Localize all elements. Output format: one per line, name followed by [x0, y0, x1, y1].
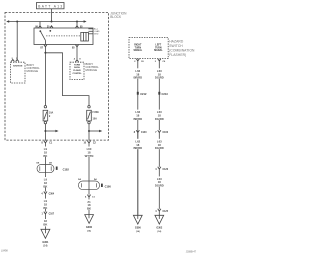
svg-text:L9: L9 [44, 199, 48, 203]
svg-text:IGNITION: IGNITION [13, 65, 23, 67]
svg-text:D4: D4 [94, 178, 98, 181]
svg-text:CONTRL: CONTRL [72, 73, 82, 75]
svg-text:D8: D8 [49, 163, 53, 165]
svg-text:10: 10 [84, 142, 87, 144]
svg-text:18: 18 [87, 151, 91, 155]
svg-text:4: 4 [85, 196, 87, 199]
svg-text:C1: C1 [92, 197, 96, 199]
svg-text:BK: BK [43, 222, 47, 226]
svg-text:J038B-47: J038B-47 [186, 251, 197, 254]
svg-text:G301: G301 [42, 241, 49, 244]
svg-text:18: 18 [87, 203, 91, 207]
svg-text:SIGNAL: SIGNAL [154, 49, 163, 52]
svg-text:18: 18 [158, 114, 162, 118]
svg-text:L63: L63 [157, 110, 162, 114]
svg-text:10A: 10A [93, 117, 98, 120]
svg-text:TURN: TURN [155, 47, 162, 49]
svg-text:C2: C2 [93, 142, 97, 144]
svg-text:BK: BK [87, 207, 91, 211]
svg-text:18: 18 [44, 181, 48, 185]
svg-text:L63: L63 [157, 139, 162, 143]
svg-text:C304: C304 [49, 193, 55, 196]
svg-text:18: 18 [136, 114, 140, 118]
svg-text:18: 18 [44, 203, 48, 207]
svg-text:BR/RD: BR/RD [133, 146, 142, 150]
svg-text:BK: BK [43, 154, 47, 158]
svg-text:SGNL: SGNL [74, 67, 81, 69]
svg-text:7: 7 [155, 132, 157, 134]
svg-text:MODULE: MODULE [86, 68, 98, 72]
svg-text:L9: L9 [44, 178, 48, 182]
svg-text:(14): (14) [157, 230, 161, 233]
svg-text:4: 4 [74, 58, 76, 61]
svg-text:Z1: Z1 [87, 200, 91, 204]
svg-text:18: 18 [44, 151, 48, 155]
svg-text:3: 3 [155, 61, 157, 63]
svg-text:(14): (14) [87, 229, 91, 232]
svg-text:G306: G306 [135, 227, 142, 230]
svg-text:C1: C1 [49, 142, 53, 144]
svg-text:10A: 10A [49, 111, 54, 114]
svg-text:DG/RD: DG/RD [155, 117, 164, 121]
svg-text:C107: C107 [49, 214, 55, 216]
svg-text:FLSHR: FLSHR [73, 70, 81, 72]
svg-text:G302: G302 [156, 227, 163, 230]
svg-text:4: 4 [155, 210, 157, 213]
svg-text:18: 18 [158, 143, 162, 147]
svg-text:L9: L9 [44, 147, 48, 151]
svg-text:SIGNAL: SIGNAL [133, 49, 142, 52]
svg-text:18: 18 [158, 180, 162, 184]
svg-text:4: 4 [155, 168, 157, 171]
svg-text:L62: L62 [135, 110, 140, 114]
svg-text:4: 4 [41, 193, 43, 196]
svg-text:(COMBINATION: (COMBINATION [169, 49, 195, 53]
svg-text:18: 18 [158, 72, 162, 76]
svg-text:85: 85 [72, 47, 75, 49]
svg-text:DG/RD: DG/RD [155, 146, 164, 150]
svg-text:C213: C213 [162, 92, 169, 96]
svg-text:LEFT: LEFT [155, 45, 161, 47]
svg-text:C6: C6 [141, 61, 145, 63]
svg-text:WT/TN: WT/TN [85, 154, 94, 158]
svg-text:C6: C6 [163, 61, 167, 63]
svg-text:18: 18 [44, 219, 48, 223]
svg-text:BK: BK [43, 184, 47, 188]
svg-text:FLASHER): FLASHER) [169, 53, 186, 57]
svg-text:9: 9 [49, 115, 51, 118]
svg-text:BR/RD: BR/RD [133, 117, 142, 121]
svg-text:DG/RD: DG/RD [155, 184, 164, 188]
svg-text:FUSE: FUSE [93, 111, 100, 114]
svg-text:L60: L60 [87, 147, 92, 151]
svg-text:RIGHT: RIGHT [134, 45, 142, 47]
svg-text:(14): (14) [43, 244, 47, 247]
svg-text:HAZARD: HAZARD [169, 40, 184, 44]
svg-text:8: 8 [134, 132, 136, 134]
svg-text:C100: C100 [105, 184, 112, 188]
svg-text:C100: C100 [163, 132, 169, 134]
svg-text:18: 18 [136, 143, 140, 147]
svg-text:TURN: TURN [135, 47, 142, 49]
svg-text:BR/RD: BR/RD [133, 76, 142, 80]
svg-text:(14): (14) [136, 230, 140, 233]
svg-text:BLOCK: BLOCK [110, 15, 122, 19]
svg-text:GRD: GRD [94, 34, 99, 36]
svg-text:C212: C212 [140, 92, 147, 96]
svg-text:87: 87 [40, 47, 43, 49]
svg-text:L62: L62 [135, 69, 140, 73]
svg-text:C140: C140 [141, 131, 147, 134]
svg-text:1: 1 [42, 214, 44, 216]
svg-text:18: 18 [136, 72, 140, 76]
svg-text:D4: D4 [78, 178, 82, 181]
svg-text:C125: C125 [163, 211, 169, 213]
svg-text:C102: C102 [63, 167, 70, 171]
svg-text:L62: L62 [135, 139, 140, 143]
svg-text:MODULE: MODULE [27, 69, 39, 73]
svg-text:G300: G300 [86, 226, 93, 229]
svg-text:BK: BK [43, 206, 47, 210]
svg-text:2: 2 [134, 61, 136, 63]
svg-text:DG/RD: DG/RD [155, 76, 164, 80]
svg-text:SWITCH: SWITCH [169, 44, 183, 48]
svg-text:8: 8 [79, 59, 81, 61]
svg-text:L0498: L0498 [1, 250, 8, 253]
svg-text:TURN: TURN [74, 64, 80, 66]
svg-text:L63: L63 [157, 69, 162, 73]
svg-text:C126: C126 [163, 169, 169, 171]
svg-text:8: 8 [42, 142, 44, 144]
svg-text:D8: D8 [36, 163, 40, 165]
svg-text:L63: L63 [157, 177, 162, 181]
